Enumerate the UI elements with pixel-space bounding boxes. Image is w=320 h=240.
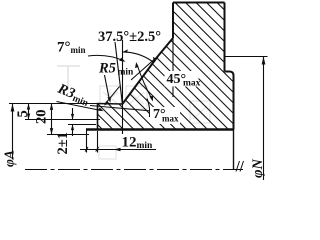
outline: right edge lower	[233, 76, 235, 130]
svg-text:20: 20	[34, 110, 50, 125]
label 2±1 rotated	[55, 132, 71, 154]
dimension 5	[28, 104, 30, 120]
dim arc: 37.5 deg	[122, 52, 154, 63]
svg-text:7°min: 7°min	[57, 40, 86, 56]
label phiN rotated	[250, 159, 266, 178]
svg-text:φN: φN	[250, 159, 266, 178]
label 20 rotated	[34, 110, 50, 125]
extension line: vertical reference through vertex	[122, 40, 124, 134]
svg-text:R5: R5	[98, 61, 116, 77]
label 45 deg max	[165, 71, 201, 89]
svg-text:12min: 12min	[122, 135, 154, 152]
thin line: vertical reference at block corner	[172, 38, 174, 97]
dim arc: 45 deg max	[137, 65, 152, 100]
svg-text:min: min	[118, 68, 135, 78]
dim arc: 7 deg min	[88, 55, 124, 61]
leader: R5min	[105, 75, 110, 100]
dimension phiA vertical line with arrow	[12, 104, 14, 160]
extension line y=119	[25, 119, 100, 121]
watermark small block	[99, 146, 116, 159]
dimension 12min	[86, 130, 88, 153]
thin line: chamfer extension for 45deg dim	[131, 56, 158, 80]
leader: R3min upper segment	[106, 87, 120, 104]
centerline axis	[25, 169, 243, 171]
thin line: 7deg min tilted reference	[115, 42, 122, 104]
label phiA rotated	[2, 150, 17, 167]
extension line: phiN surface level	[225, 56, 268, 58]
leader: R3min	[57, 102, 102, 111]
svg-text:5: 5	[15, 110, 31, 117]
outline: end face	[97, 104, 99, 130]
outline: left edge of block	[172, 3, 174, 39]
dim arc: 7 deg max	[147, 99, 150, 118]
svg-text:φA: φA	[2, 150, 17, 167]
outline: 45 deg chamfer	[158, 38, 173, 56]
label R3min	[54, 80, 92, 109]
watermark letter T	[57, 66, 80, 90]
outline: 37.5 deg bevel face	[122, 56, 158, 104]
svg-text:max: max	[162, 114, 179, 124]
extension line y=124.6	[68, 124, 96, 126]
watermark frame 3	[190, 101, 210, 123]
outline: top edge	[173, 2, 225, 4]
extension line: phiA surface level	[9, 103, 97, 105]
extension line y=134.5	[47, 134, 89, 136]
outline: right edge upper	[224, 3, 226, 72]
outline: step with fillet	[225, 72, 234, 76]
svg-text:2±1: 2±1	[55, 132, 71, 154]
dimension 20	[51, 104, 53, 135]
label 5 rotated	[15, 110, 31, 117]
svg-text:max: max	[183, 79, 201, 89]
break marks on centerline	[236, 161, 244, 172]
phantom line: 7deg max internal taper	[90, 106, 152, 112]
watermark frame 2	[126, 86, 147, 109]
label 7 deg max	[150, 107, 180, 124]
outline: bore line thick	[86, 128, 234, 131]
outline: right end face to axis	[233, 130, 235, 170]
svg-text:37.5°±2.5°: 37.5°±2.5°	[98, 29, 161, 45]
outline: root face top	[97, 103, 123, 106]
dimension 2±1	[72, 108, 74, 136]
watermark frame 1	[100, 86, 121, 109]
dimension phiN vertical line with arrow	[263, 57, 265, 181]
